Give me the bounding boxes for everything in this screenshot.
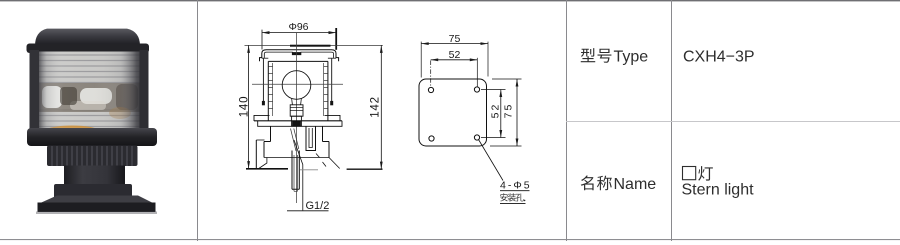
lens rib ticks right xyxy=(324,67,328,109)
bulb socket xyxy=(292,116,302,126)
flange small step left xyxy=(254,115,270,121)
dim 52 top line xyxy=(431,59,478,61)
G1/2 leader line xyxy=(294,140,303,210)
bottom baseline mid (light) xyxy=(300,169,318,171)
leader line to mounting holes label xyxy=(479,140,504,181)
thread hatch diagonals xyxy=(291,129,299,152)
G1/2 underline xyxy=(287,210,329,212)
thick cap top segment xyxy=(290,45,331,47)
vertical centerline xyxy=(296,33,298,203)
cap inner profile xyxy=(264,52,333,58)
dim 75 extensions xyxy=(420,42,422,78)
bulb base xyxy=(290,105,303,116)
pipe outer xyxy=(292,151,299,190)
dim line PHI96 xyxy=(262,32,336,34)
cap center notch xyxy=(292,52,301,55)
svg-text:Φ96: Φ96 xyxy=(288,21,308,33)
pedestal step xyxy=(264,142,329,158)
label anzhuangkong (CJK) xyxy=(500,193,508,201)
right dim 75 extensions xyxy=(492,78,522,80)
top border line xyxy=(0,0,900,1)
dim 140 text xyxy=(239,96,251,118)
horizontal extension line (140/142 top) xyxy=(245,44,383,46)
plate outline xyxy=(419,79,487,146)
svg-text:Type: Type xyxy=(614,48,649,65)
value box-deng xyxy=(683,167,696,180)
svg-text:142: 142 xyxy=(369,96,381,118)
dim 52 top text xyxy=(449,49,461,61)
dim 140 line xyxy=(248,45,250,168)
cap guard rod right xyxy=(331,59,333,105)
svg-text:4-Φ5: 4-Φ5 xyxy=(500,180,532,192)
G1/2 label xyxy=(306,200,330,212)
svg-text:Stern light: Stern light xyxy=(682,182,755,199)
dim 75 top text xyxy=(449,33,461,45)
pedestal mid shelf xyxy=(264,157,329,159)
cap bottom edge segments xyxy=(262,57,269,59)
photo: amber glow at lens bottom xyxy=(46,126,98,136)
extension line PHI96 left xyxy=(261,30,263,50)
flange top xyxy=(254,120,342,122)
lens body inner lines xyxy=(272,63,274,116)
svg-text:75: 75 xyxy=(503,103,515,119)
dim text PHI96 xyxy=(288,21,308,33)
photo: cylindrical shading over lens xyxy=(38,52,142,135)
right dim 75 text xyxy=(503,103,515,119)
dim 52 right extension xyxy=(476,58,478,87)
right dim 52 line xyxy=(500,90,502,138)
junction box right xyxy=(306,126,316,150)
svg-text:140: 140 xyxy=(239,96,251,118)
dim 142 line xyxy=(380,45,382,169)
label mingcheng Name xyxy=(581,176,594,191)
skirt left slant xyxy=(258,158,267,170)
photo: dark side strips xyxy=(30,50,40,134)
skirt right dash xyxy=(316,154,326,167)
extension line PHI96 right (thick) xyxy=(335,28,337,50)
label xinghao Type xyxy=(581,48,595,62)
hole top-left xyxy=(428,87,433,92)
horizontal centerline xyxy=(252,83,343,85)
vertical separator table columns xyxy=(671,0,672,241)
lens body outline xyxy=(268,61,328,120)
photo: foot top face xyxy=(38,196,155,205)
centerline dash-dot through left hole xyxy=(430,61,432,88)
photo: flange disc under lens xyxy=(27,128,157,146)
cap guard rod left xyxy=(262,59,264,105)
svg-text:Name: Name xyxy=(614,176,657,193)
vertical separator drawing|table xyxy=(566,0,567,241)
vertical separator photo|drawing xyxy=(197,0,198,241)
hole top-right xyxy=(474,87,479,92)
bulb xyxy=(282,71,311,100)
skirt right slant xyxy=(329,158,340,169)
photo: cap brim xyxy=(27,44,150,54)
photo: lens glass base xyxy=(38,52,142,135)
svg-text:CXH4−3P: CXH4−3P xyxy=(683,48,755,65)
lens rib ticks left xyxy=(268,67,272,109)
svg-text:52: 52 xyxy=(449,49,461,61)
dim 142 text xyxy=(369,96,381,118)
photo: base block xyxy=(54,184,132,200)
hole bottom-left xyxy=(429,136,434,141)
photo: foot front face xyxy=(38,203,156,213)
photo: lamp cap dome xyxy=(35,29,140,46)
photo: lens ribs xyxy=(38,55,142,132)
label underline 1 xyxy=(500,190,530,192)
photo: ground shadow xyxy=(36,212,157,215)
bottom extension-baseline left xyxy=(246,168,288,170)
bottom extension line right xyxy=(347,168,383,170)
hole bottom-right xyxy=(474,135,479,140)
right dim 52 text xyxy=(490,103,502,119)
skirt left outer xyxy=(255,140,257,169)
dim 75 top line xyxy=(421,43,488,45)
flange bottom xyxy=(258,121,342,127)
label 4-PHI5 xyxy=(500,180,532,192)
bottom border line xyxy=(0,239,900,240)
svg-text:52: 52 xyxy=(490,103,502,119)
right dim 75 line xyxy=(516,79,518,146)
cap outer profile xyxy=(260,50,339,62)
label underline 2 xyxy=(500,202,526,204)
photo: column xyxy=(64,166,125,187)
pipe inner thread xyxy=(294,155,298,191)
pedestal upper verticals xyxy=(270,126,272,141)
right dim 52 extensions xyxy=(481,89,506,91)
photo: ribbed collar xyxy=(47,146,138,167)
table row divider xyxy=(566,121,900,122)
photo: lens middle band xyxy=(38,83,142,112)
flange small step right xyxy=(325,115,341,121)
svg-text:G1/2: G1/2 xyxy=(306,200,330,212)
